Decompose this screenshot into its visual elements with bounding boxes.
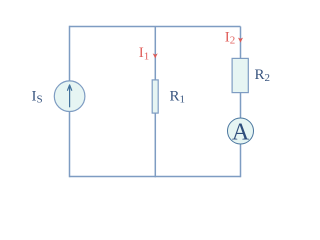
wire right	[240, 27, 242, 178]
ammeter A	[228, 118, 254, 144]
wire bottom	[70, 176, 241, 178]
wire left	[69, 26, 71, 177]
svg-text:A: A	[232, 120, 250, 146]
resistor R1	[152, 80, 158, 113]
current arrow I2	[238, 38, 243, 43]
current arrow I1	[153, 53, 158, 58]
resistor R2	[232, 58, 248, 92]
wire middle	[154, 27, 156, 178]
current source IS	[54, 81, 85, 112]
wire top	[70, 26, 241, 28]
